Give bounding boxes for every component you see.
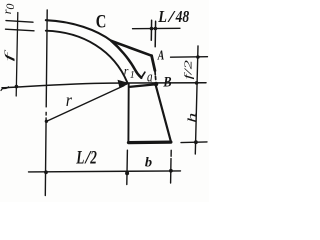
vertical centre axis xyxy=(45,10,47,196)
tick r0 bottom / f top xyxy=(6,29,35,31)
svg-text:b: b xyxy=(145,156,152,171)
axis curve arrow shaft xyxy=(112,41,142,78)
section trapezoid top edge xyxy=(129,84,155,87)
break squiggle at left end xyxy=(1,87,9,91)
arrowhead of r xyxy=(118,80,131,88)
section trapezoid left edge xyxy=(127,84,129,142)
svg-text:C: C xyxy=(96,11,107,32)
svg-text:r0: r0 xyxy=(0,4,17,15)
left dimension line xyxy=(16,13,18,97)
outer arc (extrados) xyxy=(46,20,112,41)
svg-text:1: 1 xyxy=(130,70,135,81)
bottom dimension line xyxy=(29,171,181,172)
b right tick xyxy=(170,150,173,183)
svg-text:L/2: L/2 xyxy=(76,147,98,168)
springing horizontal line xyxy=(2,83,206,88)
extension line from A xyxy=(171,56,208,59)
L/48 dimension line xyxy=(133,27,181,29)
tick r0 top xyxy=(6,21,33,23)
b left tick xyxy=(126,150,129,184)
node B dot xyxy=(154,82,159,87)
radius r line xyxy=(46,86,124,122)
springing face A down xyxy=(152,56,155,71)
svg-text:r: r xyxy=(66,90,73,110)
svg-text:f: f xyxy=(3,48,15,62)
dot at f bottom on left line xyxy=(15,85,19,89)
svg-text:L/48: L/48 xyxy=(157,7,189,26)
bottom tick of h xyxy=(181,141,207,144)
svg-text:h: h xyxy=(185,113,199,123)
dashed projection to B xyxy=(154,72,157,81)
section trapezoid right edge xyxy=(156,86,171,141)
arrow barb at a xyxy=(141,72,145,78)
svg-text:A: A xyxy=(157,49,164,64)
svg-text:r: r xyxy=(124,64,129,78)
right dimension line xyxy=(195,46,198,154)
svg-text:a: a xyxy=(147,70,153,86)
svg-text:B: B xyxy=(163,74,172,90)
haunch chord to A xyxy=(112,41,152,56)
svg-text:f/2: f/2 xyxy=(184,59,195,80)
inner arc (intrados) xyxy=(46,31,128,83)
section trapezoid bottom edge xyxy=(128,141,171,145)
